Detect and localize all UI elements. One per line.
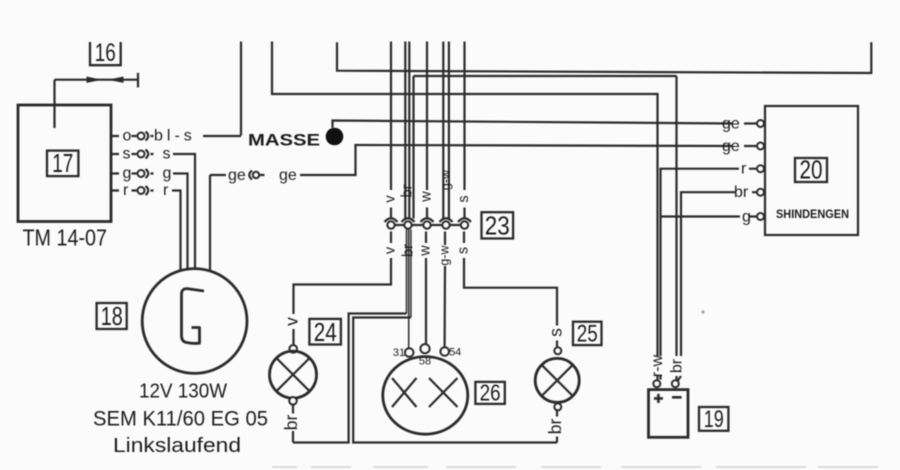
svg-text:g: g (123, 165, 132, 182)
svg-text:w: w (418, 245, 434, 257)
svg-text:20: 20 (800, 155, 823, 185)
svg-text:br: br (669, 358, 686, 373)
svg-text:25: 25 (577, 321, 598, 348)
svg-text:br: br (545, 419, 565, 435)
svg-text:r: r (163, 182, 169, 199)
svg-text:v: v (383, 195, 399, 203)
svg-text:SEM K11/60 EG 05: SEM K11/60 EG 05 (93, 408, 268, 431)
svg-text:g: g (163, 165, 172, 182)
svg-text:br: br (399, 184, 415, 197)
svg-text:ge: ge (722, 138, 740, 155)
svg-text:s: s (123, 146, 131, 163)
svg-text:TM 14-07: TM 14-07 (23, 225, 108, 251)
svg-text:ge: ge (228, 167, 246, 184)
svg-text:r: r (741, 161, 747, 178)
svg-text:17: 17 (52, 148, 73, 178)
svg-text:18: 18 (101, 301, 123, 331)
svg-text:Linkslaufend: Linkslaufend (113, 435, 241, 457)
svg-text:SHINDENGEN: SHINDENGEN (776, 207, 849, 221)
svg-text:s: s (456, 247, 472, 254)
svg-text:ge: ge (722, 116, 740, 133)
svg-text:12V 130W: 12V 130W (139, 381, 227, 403)
svg-text:v: v (282, 317, 302, 326)
svg-text:19: 19 (704, 406, 724, 433)
svg-text:s: s (163, 146, 171, 163)
svg-text:16: 16 (95, 39, 116, 67)
svg-text:s: s (456, 195, 472, 202)
svg-text:g-w: g-w (438, 244, 452, 265)
svg-text:23: 23 (485, 211, 510, 241)
svg-text:24: 24 (314, 317, 337, 347)
svg-text:r-w: r-w (649, 354, 666, 377)
svg-text:s: s (546, 328, 566, 337)
svg-text:26: 26 (480, 380, 501, 406)
svg-text:MASSE: MASSE (248, 132, 320, 150)
svg-text:br: br (401, 244, 417, 257)
svg-text:r: r (123, 182, 129, 199)
svg-text:31: 31 (393, 347, 405, 359)
svg-text:o: o (123, 128, 132, 145)
svg-text:g-w: g-w (439, 169, 453, 190)
svg-text:54: 54 (449, 347, 461, 359)
svg-text:br: br (281, 415, 301, 431)
svg-text:58: 58 (419, 356, 431, 368)
svg-text:v: v (383, 246, 399, 254)
svg-text:w: w (419, 191, 435, 203)
svg-text:ge: ge (279, 167, 297, 184)
svg-text:g: g (742, 209, 751, 226)
svg-text:bl-s: bl-s (154, 128, 196, 145)
